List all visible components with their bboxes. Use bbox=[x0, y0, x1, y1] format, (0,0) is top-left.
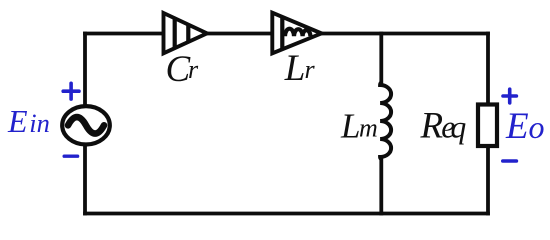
resistor Req (box) bbox=[478, 105, 497, 147]
inductor Lm (coil) bbox=[380, 83, 391, 160]
wire right rail bbox=[486, 32, 490, 216]
minus sign (output) bbox=[503, 159, 517, 163]
capacitor C_r (triangle symbol) bbox=[164, 13, 208, 53]
plus sign (input) bbox=[63, 83, 79, 99]
svg-text:in: in bbox=[29, 108, 50, 138]
wire top-left segment bbox=[83, 32, 166, 36]
minus sign (input) bbox=[64, 154, 77, 157]
svg-text:r: r bbox=[188, 55, 199, 84]
wire middle branch lower bbox=[379, 157, 383, 215]
wire Lr apex to right rail bbox=[318, 32, 490, 36]
wire left rail bbox=[83, 32, 87, 216]
svg-text:L: L bbox=[340, 106, 360, 145]
svg-text:r: r bbox=[305, 55, 316, 84]
svg-text:E: E bbox=[7, 103, 28, 139]
plus sign (output) bbox=[503, 89, 516, 103]
svg-text:o: o bbox=[529, 109, 545, 145]
inductor L_r (triangle symbol) bbox=[272, 13, 321, 54]
wire between Cr and Lr bbox=[205, 32, 275, 36]
svg-text:eq: eq bbox=[441, 109, 466, 144]
svg-text:R: R bbox=[420, 105, 444, 146]
svg-text:E: E bbox=[505, 106, 529, 147]
svg-text:L: L bbox=[284, 48, 306, 89]
AC source Ein bbox=[62, 106, 110, 144]
wire bottom rail bbox=[83, 212, 490, 216]
svg-text:m: m bbox=[359, 113, 378, 142]
wire middle branch upper bbox=[379, 32, 383, 84]
